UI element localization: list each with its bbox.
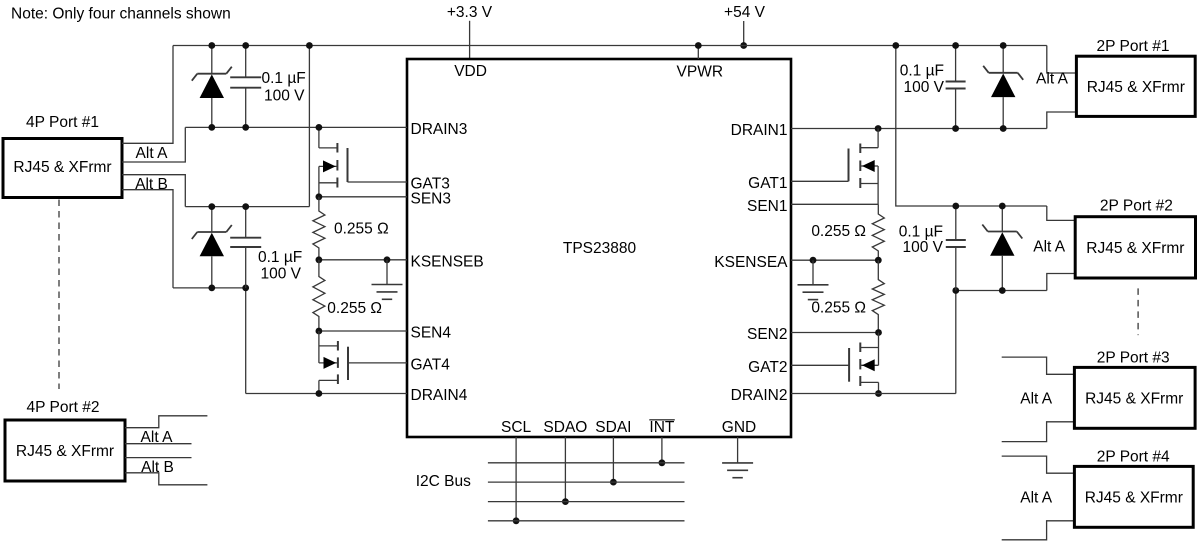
wire J1 AltB to mid net: [122, 175, 185, 207]
svg-text:VPWR: VPWR: [677, 64, 724, 81]
wire SCL stub: [513, 437, 520, 524]
svg-text:Alt A: Alt A: [136, 145, 169, 162]
svg-text:2P Port #2: 2P Port #2: [1100, 198, 1173, 215]
wire port3 lower stub: [1002, 422, 1075, 442]
svg-text:0.255 Ω: 0.255 Ω: [811, 223, 866, 240]
RJ45 & XFrmr text J2: [16, 443, 114, 460]
Alt A label J2: [141, 429, 174, 446]
svg-text:2P Port #4: 2P Port #4: [1097, 448, 1170, 465]
pin KSENSEB label: [411, 253, 484, 270]
RJ45 box J2: [5, 420, 125, 481]
wire DRAIN1 to port1 box: [1047, 112, 1077, 129]
svg-text:100 V: 100 V: [264, 88, 305, 105]
wire GAT1: [791, 180, 849, 182]
wire GAT2: [791, 364, 849, 366]
wire rail to mid net: [306, 42, 313, 207]
wire SDAO stub: [562, 437, 569, 505]
resistor R3 0.255: [313, 197, 325, 260]
RJ45 box P1: [1076, 56, 1195, 116]
svg-text:0.1 µF: 0.1 µF: [262, 70, 306, 87]
svg-text:0.1 µF: 0.1 µF: [900, 63, 944, 80]
resistor R2 0.255: [872, 260, 884, 332]
svg-text:Note: Only four channels shown: Note: Only four channels shown: [11, 6, 231, 23]
IC U1 TPS23880 body: [407, 59, 791, 437]
R1 value: [811, 223, 866, 240]
wire J2 stub1: [125, 416, 207, 428]
4P Port #1 label: [26, 114, 99, 131]
svg-text:0.255 Ω: 0.255 Ω: [811, 299, 866, 316]
pin DRAIN2 label: [731, 387, 788, 404]
svg-text:KSENSEB: KSENSEB: [411, 253, 484, 270]
svg-text:RJ45 & XFrmr: RJ45 & XFrmr: [1085, 489, 1183, 506]
svg-text:SEN3: SEN3: [411, 190, 452, 207]
I2C bus line 3: [488, 501, 685, 503]
R4 value: [327, 300, 382, 317]
4P Port #2 label: [27, 399, 100, 416]
resistor R4 0.255: [313, 260, 325, 331]
wire INT stub: [659, 437, 666, 466]
svg-text:0.255 Ω: 0.255 Ω: [327, 300, 382, 317]
wire +3.3V to VDD pin: [469, 21, 471, 59]
svg-text:RJ45 & XFrmr: RJ45 & XFrmr: [1087, 79, 1185, 96]
RJ45 & XFrmr text P1: [1087, 79, 1185, 96]
wire port2 net to box: [1047, 206, 1075, 220]
2P Port #3 label: [1097, 349, 1170, 366]
wire J1 pair1 to rail: [122, 46, 173, 144]
R2 value: [811, 299, 866, 316]
pin GND label: [722, 419, 756, 436]
svg-text:+3.3 V: +3.3 V: [447, 4, 493, 21]
pin SEN2 label: [747, 326, 788, 343]
wire SEN3: [316, 193, 408, 200]
svg-text:SDAI: SDAI: [595, 419, 631, 436]
C4 value 0.1uF: [899, 224, 943, 241]
wire mid net: [185, 206, 309, 208]
svg-text:RJ45 & XFrmr: RJ45 & XFrmr: [1086, 240, 1184, 257]
svg-text:DRAIN2: DRAIN2: [731, 387, 788, 404]
svg-text:Alt A: Alt A: [1036, 71, 1069, 88]
C2 value 100V: [261, 266, 302, 283]
wire lower net to DRAIN4: [242, 285, 249, 394]
C4 value 100V: [902, 239, 943, 256]
wire J2 stub2 AltA: [125, 443, 192, 445]
pin GAT2 label: [748, 359, 787, 376]
TVS D4: [982, 203, 1022, 294]
svg-text:100 V: 100 V: [261, 266, 302, 283]
Alt A label P2: [1033, 238, 1066, 255]
2P Port #1 label: [1097, 38, 1170, 55]
wire DRAIN3 net: [185, 126, 407, 128]
pin GAT3 label: [411, 176, 450, 193]
svg-text:SEN1: SEN1: [747, 198, 788, 215]
wire DRAIN2 net: [791, 393, 956, 395]
pin GAT4 label: [411, 357, 451, 374]
pin DRAIN3 label: [411, 121, 468, 138]
pin SDAO label: [543, 419, 587, 436]
RJ45 box P3: [1074, 367, 1195, 428]
svg-text:Alt A: Alt A: [1020, 390, 1053, 407]
pin SEN4 label: [411, 325, 452, 342]
wire port4 lower stub: [1002, 521, 1075, 540]
capacitor C4: [946, 203, 966, 291]
wire +54V rail: [173, 45, 1047, 47]
svg-text:INT: INT: [649, 419, 675, 436]
pin VPWR stub: [695, 42, 702, 59]
svg-text:SEN2: SEN2: [747, 326, 788, 343]
pin VPWR label: [677, 64, 724, 81]
wire GAT4: [348, 362, 407, 364]
svg-text:TPS23880: TPS23880: [563, 240, 637, 257]
wire port2 lower net: [952, 287, 1046, 294]
Alt B label J2: [141, 459, 174, 476]
ground GND pin: [722, 437, 753, 478]
transistor Q2: [849, 333, 882, 397]
dashed link port1-port2: [58, 200, 60, 390]
svg-text:RJ45 & XFrmr: RJ45 & XFrmr: [13, 159, 111, 176]
svg-text:Alt A: Alt A: [1033, 238, 1066, 255]
capacitor C1: [230, 42, 261, 131]
svg-text:GND: GND: [722, 419, 756, 436]
capacitor C2: [230, 203, 261, 288]
TVS D2: [192, 203, 232, 291]
RJ45 & XFrmr text P3: [1085, 390, 1183, 407]
wire SEN4: [316, 328, 408, 335]
RJ45 box P2: [1075, 217, 1195, 278]
svg-text:+54 V: +54 V: [724, 4, 766, 21]
TVS D1: [192, 42, 232, 131]
wire port4 upper stub: [1002, 456, 1075, 473]
svg-text:GAT1: GAT1: [748, 175, 787, 192]
pin SDAI label: [595, 419, 631, 436]
transistor Q3: [316, 124, 348, 197]
Alt B label J1: [135, 176, 168, 193]
pin SCL label: [501, 419, 532, 436]
wire rail to port2 net: [892, 42, 1046, 206]
R3 value: [334, 221, 389, 238]
dashed link port2-port3: [1137, 288, 1139, 335]
Alt A label P1: [1036, 71, 1069, 88]
pin INT label: [649, 419, 675, 436]
2P Port #4 label: [1097, 448, 1170, 465]
2P Port #2 label: [1100, 198, 1173, 215]
svg-text:0.1 µF: 0.1 µF: [258, 249, 302, 266]
svg-text:GAT4: GAT4: [411, 357, 451, 374]
svg-text:4P Port #2: 4P Port #2: [27, 399, 100, 416]
svg-text:0.255 Ω: 0.255 Ω: [334, 221, 389, 238]
pin GAT1 label: [748, 175, 787, 192]
pin KSENSEA label: [714, 254, 788, 271]
svg-text:DRAIN1: DRAIN1: [731, 122, 788, 139]
svg-text:GAT2: GAT2: [748, 359, 787, 376]
pin DRAIN4 label: [411, 387, 468, 404]
svg-text:DRAIN3: DRAIN3: [411, 121, 468, 138]
svg-text:4P Port #1: 4P Port #1: [26, 114, 99, 131]
wire J2 stub3 AltB: [125, 457, 192, 459]
svg-text:Alt A: Alt A: [1020, 489, 1053, 506]
svg-text:SDAO: SDAO: [543, 419, 587, 436]
TVS D3: [983, 42, 1023, 132]
pin SEN1 label: [747, 198, 788, 215]
Alt A label J1: [136, 145, 169, 162]
C2 value 0.1uF: [258, 249, 302, 266]
RJ45 & XFrmr text P4: [1085, 489, 1183, 506]
RJ45 box P4: [1074, 466, 1193, 527]
capacitor C3: [946, 42, 966, 132]
transistor Q4: [316, 331, 349, 397]
wire port2 lower to box: [1047, 274, 1075, 291]
ground near KSENSEA: [798, 260, 829, 299]
RJ45 & XFrmr text P2: [1086, 240, 1184, 257]
svg-text:2P Port #1: 2P Port #1: [1097, 38, 1170, 55]
RJ45 & XFrmr text J1: [13, 159, 111, 176]
svg-text:DRAIN4: DRAIN4: [411, 387, 468, 404]
wire SEN1: [791, 203, 878, 205]
wire DRAIN4 net: [246, 393, 407, 395]
transistor Q1: [849, 125, 882, 204]
pin SEN3 label: [411, 190, 452, 207]
wire GAT3: [348, 181, 408, 183]
pin DRAIN1 label: [731, 122, 788, 139]
svg-text:VDD: VDD: [454, 63, 487, 80]
C1 value 0.1uF: [262, 70, 306, 87]
svg-text:100 V: 100 V: [903, 79, 944, 96]
wire J1 AltA to DRAIN3 net: [122, 127, 185, 162]
I2C bus line 1: [488, 462, 685, 464]
Alt A label P4: [1020, 489, 1053, 506]
wire DRAIN2 riser: [955, 291, 957, 394]
RJ45 box J1: [3, 139, 122, 198]
svg-text:SEN4: SEN4: [411, 325, 452, 342]
wire J1 pair4 to lower net: [122, 190, 173, 288]
INT overline: [649, 419, 675, 421]
Alt A label P3: [1020, 390, 1053, 407]
wire SEN2: [791, 329, 882, 336]
note text: [11, 6, 231, 23]
svg-text:KSENSEA: KSENSEA: [714, 254, 788, 271]
svg-text:100 V: 100 V: [902, 239, 943, 256]
C3 value 100V: [903, 79, 944, 96]
wire J2 stub4: [125, 473, 207, 485]
svg-text:RJ45 & XFrmr: RJ45 & XFrmr: [16, 443, 114, 460]
wire rail to port1 box: [1047, 46, 1077, 74]
+3.3V supply label: [447, 4, 493, 21]
svg-text:SCL: SCL: [501, 419, 532, 436]
IC label TPS23880: [563, 240, 637, 257]
wire +54V to rail: [740, 21, 747, 49]
wire KSENSEA: [791, 257, 882, 264]
+54V supply label: [724, 4, 766, 21]
pin VDD label: [454, 63, 487, 80]
wire KSENSEB: [316, 256, 408, 263]
svg-text:I2C Bus: I2C Bus: [416, 473, 471, 490]
I2C bus line 2: [488, 481, 685, 483]
I2C bus line 4: [488, 520, 685, 522]
wire DRAIN1 net: [791, 128, 1047, 130]
wire SDAI stub: [610, 437, 617, 486]
svg-text:RJ45 & XFrmr: RJ45 & XFrmr: [1085, 390, 1183, 407]
C3 value 0.1uF: [900, 63, 944, 80]
I2C Bus label: [416, 473, 471, 490]
wire port3 upper stub: [1002, 357, 1075, 374]
C1 value 100V: [264, 88, 305, 105]
wire lower net: [173, 287, 246, 289]
resistor R1 0.255: [872, 204, 884, 260]
ground near KSENSEB: [372, 260, 403, 300]
svg-text:2P Port #3: 2P Port #3: [1097, 349, 1170, 366]
